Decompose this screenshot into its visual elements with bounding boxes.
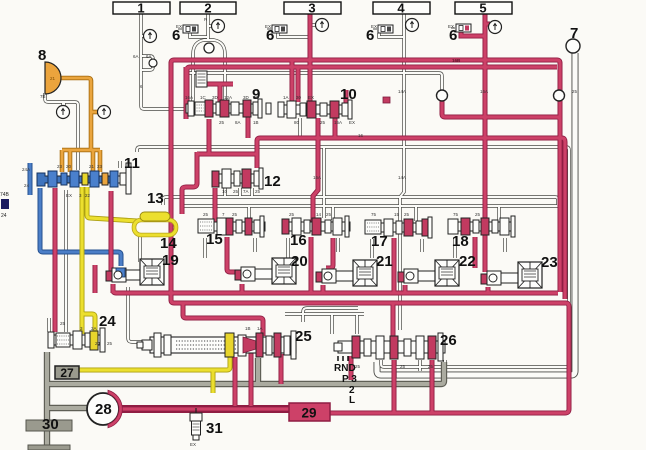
wire 16A to valve16 [313,118,318,222]
wire box2 stem and check loop [206,14,209,40]
wire frame y197 [163,197,558,205]
svg-text:EX: EX [190,442,196,447]
valve 26 manual [334,333,445,361]
svg-text:24: 24 [24,183,30,188]
valve 10 [278,100,352,119]
wire comp8 lower pipe [45,93,78,170]
orange lines [50,78,100,172]
bottom bar 32 [28,445,70,450]
svg-text:26: 26 [440,332,457,349]
svg-text:23: 23 [57,164,63,169]
svg-text:EX: EX [371,24,377,29]
svg-text:1B: 1B [253,120,259,125]
box 3 [284,1,341,16]
svg-text:25: 25 [428,364,434,369]
manual lever ticks [338,356,348,361]
svg-text:29: 29 [301,406,316,421]
svg-text:24A: 24A [22,167,30,172]
svg-text:6A: 6A [133,54,139,59]
svg-text:28: 28 [95,401,112,418]
check ball 558 [554,90,565,101]
svg-text:6A: 6A [146,54,152,59]
svg-text:25: 25 [320,120,326,125]
svg-text:25: 25 [572,89,578,94]
svg-text:5: 5 [479,1,486,16]
svg-text:12: 12 [264,173,281,190]
svg-text:21: 21 [50,76,56,81]
valve 17 [365,217,432,238]
svg-text:EX: EX [265,24,271,29]
wire valve24 top stub [64,190,67,332]
svg-text:RND: RND [334,363,356,374]
wire valve19 feed [109,191,114,280]
svg-text:19: 19 [162,252,179,269]
svg-text:EX: EX [448,24,454,29]
svg-text:14A: 14A [398,175,406,180]
svg-text:21: 21 [89,164,95,169]
svg-text:EX: EX [349,120,355,125]
check ball box2 loop [204,43,214,53]
svg-text:30: 30 [296,95,302,100]
svg-text:16: 16 [290,232,307,249]
small crimson block near valve10 [383,97,390,103]
left margin labels [0,192,10,219]
wire valve9 feeds [184,67,189,119]
wire yellow to accumulator 13 [87,187,137,221]
wire crimson cores overlay [55,14,569,413]
svg-text:25: 25 [232,212,238,217]
svg-text:8: 8 [38,47,46,64]
svg-text:31: 31 [206,420,223,437]
drain solenoid 31 [190,408,202,440]
wire orange manifold [62,148,100,153]
wire shift valve stubs [111,284,116,293]
svg-text:18: 18 [452,233,469,250]
svg-text:80: 80 [294,120,300,125]
svg-text:EX: EX [253,95,259,100]
wire valve25 to converter [255,358,261,384]
olive gray lines [47,352,444,450]
wire box4 stem [400,14,404,330]
svg-text:6: 6 [172,27,180,44]
wire gray line y147 [137,147,569,367]
wire yellow branch to valve24 [82,312,95,334]
shift valve 22 [398,260,459,286]
valve 15 [198,216,265,237]
svg-text:10: 10 [340,86,357,103]
box 2 [180,1,236,16]
node label RND P3 2 L [334,363,357,406]
wire line bus y293 [113,285,558,293]
box 5 [455,1,512,16]
svg-text:25: 25 [404,212,410,217]
svg-text:25: 25 [400,364,406,369]
svg-text:16: 16 [358,133,364,138]
box 4 [373,1,430,16]
svg-text:25: 25 [107,341,113,346]
svg-text:15: 15 [394,212,400,217]
wire valve16 to bus [309,237,314,293]
svg-text:30: 30 [42,416,59,433]
wire box3 stem [308,14,313,102]
pump intake 8 [45,62,61,94]
accumulator 13 14 yellow [134,212,176,235]
wire olive cores overlay [47,352,444,450]
wire yellow cores overlay [76,187,230,393]
check ball 442 [437,90,448,101]
svg-text:23: 23 [97,164,103,169]
wire box1 stem [141,14,184,109]
svg-text:25: 25 [60,321,66,326]
gauge (box3) [316,19,329,32]
svg-text:75: 75 [371,212,377,217]
svg-text:1A: 1A [283,95,289,100]
svg-text:15: 15 [206,231,223,248]
svg-text:24: 24 [95,341,101,346]
svg-text:25: 25 [255,189,261,194]
wire inter-row stubs [203,238,206,258]
wire wide pipe cores overlay [377,53,575,375]
shift valve 21 [316,260,377,286]
wire blue stub left [28,163,33,195]
svg-text:1B: 1B [245,326,251,331]
svg-text:75: 75 [453,212,459,217]
gauge (box1) [144,30,157,43]
svg-text:24: 24 [1,213,7,219]
wire valve9 to H3 [207,119,212,154]
wire yellow throttle main [80,187,85,334]
svg-text:6: 6 [449,27,457,44]
svg-text:2: 2 [204,1,211,16]
wire box5 stem V_C [483,14,488,272]
svg-text:12A: 12A [224,95,232,100]
gauge (left a) [57,106,70,119]
svg-text:25: 25 [295,328,312,345]
wire circle7 down pipe [377,53,575,375]
valve 24 [48,328,105,352]
valve 9 [186,99,271,118]
wire orange cores overlay [50,78,100,172]
svg-text:EX: EX [308,95,314,100]
wire valve12 plumb [197,152,257,157]
svg-text:15A: 15A [334,120,342,125]
cooler 29 box [289,403,330,421]
wire H3 16-line [257,138,565,299]
svg-text:20: 20 [66,164,72,169]
svg-text:20: 20 [291,253,308,270]
svg-text:7A: 7A [243,189,249,194]
pressure reg 27 box [55,366,79,380]
wire converter line y384 [47,362,444,384]
wire ball442 branch [442,96,560,120]
accumulator 7 [566,39,580,53]
wire valve11 EX stub [118,161,121,168]
valve 16 [282,216,350,237]
wire valve25 drains [233,357,238,406]
svg-text:16B: 16B [452,58,461,63]
check ball box1 [149,59,157,67]
svg-text:7B: 7B [40,94,46,99]
svg-text:16A: 16A [313,175,321,180]
svg-text:1A: 1A [257,326,263,331]
svg-text:6: 6 [266,27,274,44]
svg-text:13: 13 [147,190,164,207]
converter 28 [87,390,122,428]
solenoid valve 6 (box5) [451,24,471,32]
svg-text:14: 14 [316,212,322,217]
wire blue lube line [40,188,121,266]
wire blue cores overlay [30,163,121,266]
wire valve10 feeds [290,59,295,102]
svg-text:23: 23 [541,254,558,271]
svg-text:25: 25 [233,189,239,194]
svg-text:17: 17 [371,233,388,250]
crimson lines [55,14,569,413]
wire orange pump line [50,78,91,150]
svg-text:1: 1 [137,1,144,16]
svg-text:7: 7 [570,25,578,42]
shift valve 23 [481,262,542,288]
wire valve26 drains [392,360,397,413]
svg-text:74B: 74B [0,192,10,198]
gauge (box5) [489,21,502,34]
svg-text:22: 22 [85,193,91,198]
yellow lines [76,187,230,393]
svg-text:14: 14 [160,235,177,252]
cooler 30 bar [26,420,72,431]
svg-text:3A: 3A [91,326,97,331]
shift valve 19 [106,259,164,285]
wire pan return vertical [44,352,50,450]
wire main bus H1 + V_A + bus303 [171,60,566,303]
valve 11 [37,163,131,194]
solenoid valve 6 (box4) [373,25,393,33]
throttle plug above valve 9 [196,71,207,87]
wire pan to pump28 [47,405,88,411]
svg-text:14A: 14A [398,89,406,94]
gauge (left b) [98,106,111,119]
wire H2 [187,67,557,102]
wire valve15 to shift20 [227,237,240,272]
svg-text:24: 24 [99,313,116,330]
blue lines [30,163,121,266]
svg-text:8A: 8A [235,120,241,125]
svg-text:6: 6 [366,27,374,44]
wire feed to valve25 [183,303,263,336]
svg-text:1C: 1C [200,95,207,100]
svg-text:16A: 16A [185,95,193,100]
wire horizontal y73 [187,73,442,90]
wire pump bus to 29 [119,405,291,413]
wire 6b stub [278,33,310,37]
wire right frame down to bottom bus [330,303,569,413]
svg-text:3D: 3D [212,95,219,100]
svg-text:11: 11 [124,155,140,172]
box 1 [113,1,170,16]
wire pipe cores overlay [45,14,569,378]
solenoid valve 6 (box2) [178,25,198,33]
svg-text:21: 21 [376,253,393,270]
valve 18 [448,216,515,237]
svg-text:16A: 16A [480,89,488,94]
gauge (box4) [406,19,419,32]
svg-text:25: 25 [326,212,332,217]
shift valve 20 [235,258,296,284]
wire valve17 to bus [392,238,397,293]
wire valve25/26 top pipes [285,312,364,315]
svg-text:10: 10 [222,189,228,194]
svg-text:4: 4 [397,1,405,16]
wire valve26 bottom stubs [393,360,396,378]
svg-text:27: 27 [60,366,74,380]
wire frame y206 [183,204,565,207]
valve 12 [212,168,263,189]
svg-text:25: 25 [355,364,361,369]
svg-text:25: 25 [219,120,225,125]
valve 25 regulator [137,331,296,359]
svg-text:EX: EX [176,24,182,29]
svg-text:22: 22 [459,253,476,270]
svg-text:L: L [349,395,355,406]
svg-text:3D: 3D [243,95,250,100]
wire yellow kickdown line y370 [76,355,230,370]
svg-text:25: 25 [203,212,209,217]
gauge (box2) [212,20,225,33]
wire valve12 to valve15 [213,188,218,222]
wire valve11 to valve24 [53,188,58,332]
svg-text:P 3: P 3 [342,374,357,385]
solenoid valve 6 (box3) [267,25,287,33]
svg-text:EX: EX [66,193,72,198]
svg-text:25: 25 [475,212,481,217]
svg-text:3: 3 [308,1,315,16]
svg-text:25: 25 [289,212,295,217]
